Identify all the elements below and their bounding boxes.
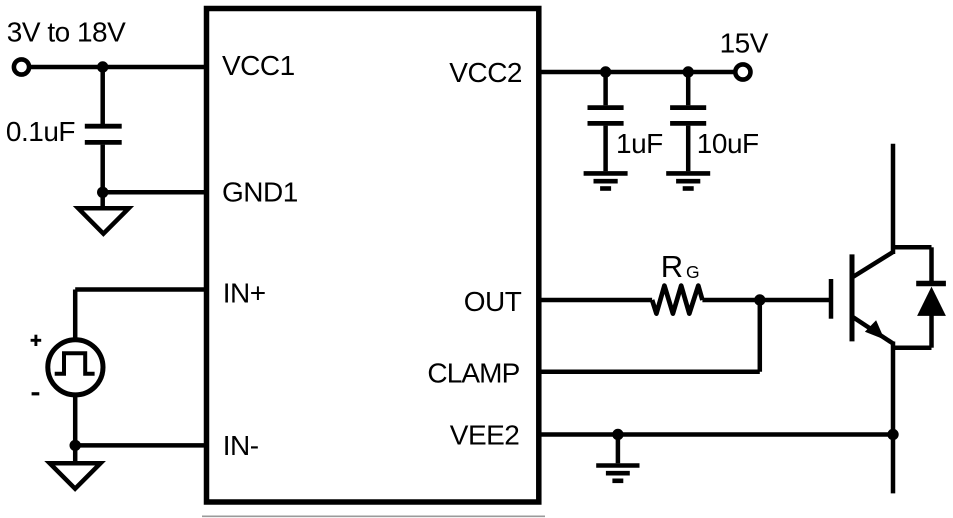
svg-text:3V to 18V: 3V to 18V xyxy=(7,16,126,47)
svg-text:CLAMP: CLAMP xyxy=(427,358,519,389)
svg-text:VCC2: VCC2 xyxy=(449,57,522,88)
svg-text:OUT: OUT xyxy=(464,286,522,317)
svg-text:VCC1: VCC1 xyxy=(222,50,295,81)
svg-text:VEE2: VEE2 xyxy=(450,420,520,451)
svg-text:R: R xyxy=(661,249,683,284)
svg-text:1uF: 1uF xyxy=(616,128,663,159)
svg-text:G: G xyxy=(686,262,699,282)
svg-text:IN+: IN+ xyxy=(223,277,266,308)
svg-text:0.1uF: 0.1uF xyxy=(6,116,75,147)
svg-text:10uF: 10uF xyxy=(697,128,759,159)
svg-text:IN-: IN- xyxy=(223,430,259,461)
svg-text:GND1: GND1 xyxy=(222,177,298,208)
svg-text:15V: 15V xyxy=(720,27,769,58)
